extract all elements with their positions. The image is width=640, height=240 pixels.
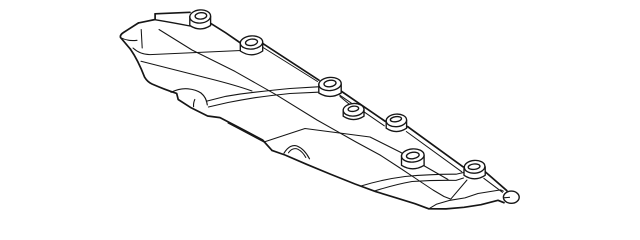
bump hook crease [194,100,195,107]
short crease below boss7 [451,180,467,199]
channel upper line bump to boss3 base [206,87,318,101]
rim inner line boss7-tip [484,178,503,192]
knob inner tick [504,196,510,199]
rim outer edge segment boss1-boss2 [211,23,241,43]
bottom-left edge to bump [130,49,272,150]
tab bottom face edge [156,20,190,26]
boss B5 [386,113,407,131]
boss B6 [401,148,424,169]
rim outer edge segment boss7-tip [485,172,507,191]
tab top edge [155,12,190,14]
bottom strip inner line [429,190,504,209]
tip knob [503,191,519,203]
fin inner arc [289,149,306,158]
boss B1 [189,9,211,29]
rim outer edge segment boss2-boss3 [263,43,319,80]
boss B2 [240,35,263,55]
long diagonal crease D1 [159,30,451,200]
bump fold contour [171,89,207,105]
corner vertical crease [141,30,142,49]
boss B4 [343,103,365,120]
floor bottom crease S2 [264,129,448,180]
panel left corner edges [120,23,138,49]
bottom strip outer edge [429,200,504,209]
rim inner line boss5-boss7 [406,132,462,172]
boss B7 [464,160,485,179]
tab left step [139,14,156,23]
channel pair to boss7: lower [375,178,464,191]
fin outer arc [284,146,310,159]
flat inner rim line left to boss2 base [133,48,241,55]
channel lower line bump to boss3 base [208,92,318,107]
channel pair to boss7: upper [361,173,464,187]
boss B3 [318,77,341,97]
corner crease arc [121,38,137,41]
corner fan line to channel [141,61,252,91]
floor corner branch to edge [228,123,264,142]
rim outer edge segment boss5-boss7 [408,127,464,167]
bottom edge mid [272,150,429,208]
boss3 base to boss4 connector [340,97,349,105]
rim inner line boss2-boss3 [262,47,318,82]
rim outer edge segment boss3-boss5 [341,91,386,122]
rim inner line boss3-boss5 [340,95,385,126]
